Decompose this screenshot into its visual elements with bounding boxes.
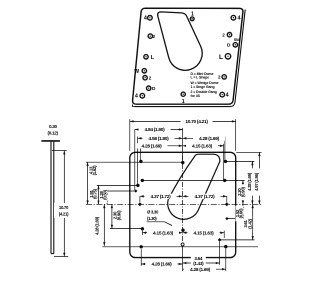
svg-text:4.28 (1.69): 4.28 (1.69) (247, 172, 252, 191)
svg-text:(1.43): (1.43) (193, 261, 204, 266)
svg-text:Ø 3.30: Ø 3.30 (147, 209, 159, 214)
svg-text:for 4S: for 4S (191, 94, 201, 98)
svg-text:(1.42): (1.42) (247, 218, 252, 229)
svg-text:4: 4 (237, 16, 240, 22)
svg-text:(0.75): (0.75) (93, 188, 98, 199)
svg-text:L: L (219, 54, 223, 61)
svg-text:(0.90): (0.90) (241, 187, 246, 198)
svg-text:(1.62): (1.62) (92, 165, 97, 176)
svg-text:(0.50): (0.50) (103, 189, 108, 200)
svg-text:4.37 (1.72): 4.37 (1.72) (151, 194, 172, 200)
svg-text:L = L Shape: L = L Shape (191, 76, 210, 80)
svg-text:(4.21): (4.21) (59, 212, 69, 217)
svg-text:4.28 (1.69): 4.28 (1.69) (142, 143, 163, 149)
svg-text:(0.60): (0.60) (238, 208, 243, 219)
svg-text:1: 1 (191, 11, 194, 17)
svg-text:SW: SW (234, 37, 240, 42)
svg-text:4.37 (1.72): 4.37 (1.72) (195, 194, 216, 200)
svg-text:4.15 (1.63): 4.15 (1.63) (153, 230, 174, 236)
svg-text:(1.30): (1.30) (147, 216, 157, 221)
svg-text:4.28 (1.69): 4.28 (1.69) (95, 216, 100, 235)
svg-text:(0.90): (0.90) (116, 210, 121, 221)
svg-text:4.84 (1.90): 4.84 (1.90) (145, 127, 166, 133)
svg-text:4.28 (1.69): 4.28 (1.69) (199, 136, 220, 142)
svg-text:10.70: 10.70 (59, 205, 69, 210)
svg-text:(0.12): (0.12) (47, 131, 58, 136)
svg-text:W: W (134, 69, 139, 75)
svg-text:4.15 (1.63): 4.15 (1.63) (194, 230, 215, 236)
svg-text:1: 1 (182, 99, 185, 105)
svg-text:4.28 (1.69): 4.28 (1.69) (152, 262, 173, 268)
svg-text:1 = Singe Gang: 1 = Singe Gang (191, 85, 215, 89)
svg-text:0.30: 0.30 (49, 124, 57, 129)
svg-text:4.28 (1.69): 4.28 (1.69) (190, 267, 211, 273)
svg-text:4.58 (1.80): 4.58 (1.80) (149, 136, 170, 142)
svg-text:4: 4 (135, 94, 138, 100)
svg-text:4: 4 (144, 16, 147, 22)
svg-text:4.97 (1.96): 4.97 (1.96) (254, 172, 259, 191)
svg-text:4: 4 (226, 93, 229, 99)
svg-text:4.15 (1.63): 4.15 (1.63) (192, 143, 213, 149)
svg-text:10.70 (4.21): 10.70 (4.21) (185, 119, 208, 125)
